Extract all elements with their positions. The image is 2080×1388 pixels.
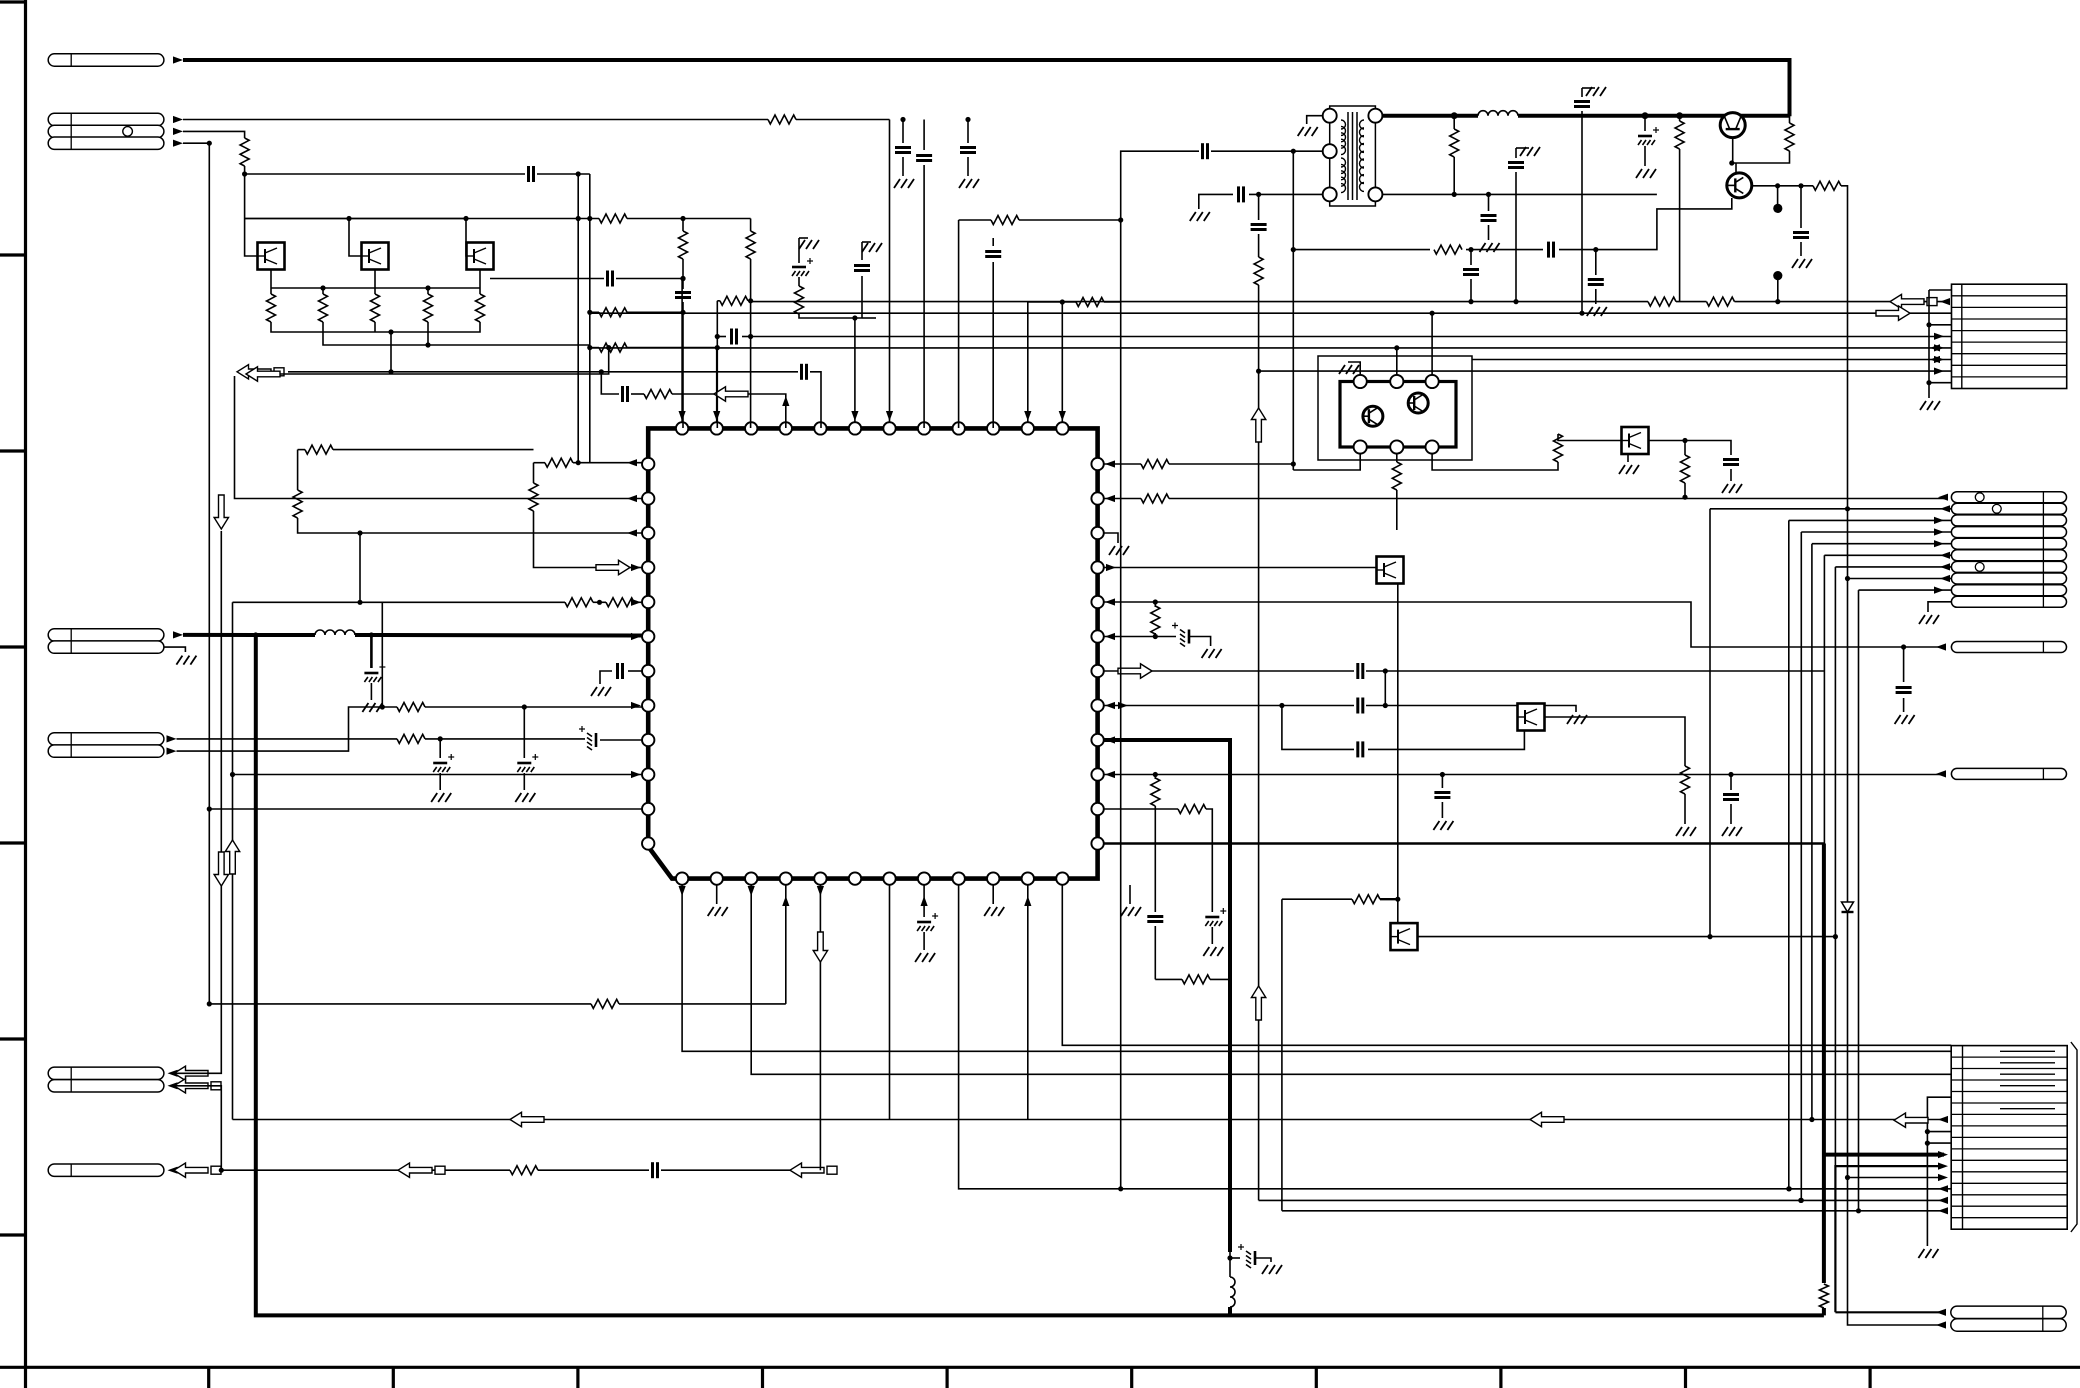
capacitor C23 <box>1356 698 1359 714</box>
resistor R20 <box>397 703 425 712</box>
arrow J4A <box>167 735 177 742</box>
arrow from IC right pin4 <box>1106 564 1116 571</box>
frame bottom tick 6 <box>1130 1367 1133 1388</box>
ground G31 <box>1586 87 1592 96</box>
capacitor C32 <box>1251 223 1267 226</box>
wire pinr2 netb <box>1169 498 1946 500</box>
junction bank mid 4 <box>425 285 430 290</box>
IC U1 bottom pin 8 <box>918 872 930 884</box>
junction net1170 a <box>219 1168 224 1173</box>
wire net449 <box>298 449 305 451</box>
arrow J3A <box>173 631 183 638</box>
junction J4A <box>438 736 443 741</box>
wire v1858 <box>1858 590 1860 1211</box>
resistor R34 <box>1434 245 1462 254</box>
junction 1731 <box>1728 772 1733 777</box>
wire net371b <box>810 372 821 428</box>
wire ecap stub 371 <box>370 635 373 668</box>
connector CN6 body <box>1951 1046 2067 1230</box>
junction bank bus 2 <box>346 216 351 221</box>
arrow row7 a <box>1930 356 1940 363</box>
frame left tick 6 <box>0 1233 25 1236</box>
IC U1 right pin 6 <box>1091 630 1103 642</box>
wire v589 <box>589 174 591 463</box>
arrow CN6 row12 <box>1938 1174 1948 1181</box>
capacitor C24 <box>1356 741 1359 757</box>
wire cap stub 1903b <box>1903 698 1905 712</box>
wire gnd14 stub <box>1129 885 1131 904</box>
capacitor C7 <box>800 364 803 380</box>
wire ecap 1645 <box>1644 118 1646 131</box>
wire net347 left <box>590 347 599 349</box>
resistor R21 <box>591 999 619 1008</box>
junction CN6 bus 1143 <box>1925 1141 1930 1146</box>
wire net347 leftb <box>627 347 717 349</box>
capacitor C30 <box>1201 143 1204 159</box>
wire stub862d <box>861 276 863 318</box>
wire cap stub 1442b <box>1441 802 1443 818</box>
wire botpin10 stub <box>992 885 994 904</box>
arrow row7 b <box>1934 356 1944 363</box>
thick vertical 1823 <box>1822 844 1826 1284</box>
wire T1 t5 net <box>1382 193 1657 195</box>
thick wire CN6 row10 <box>1824 1153 1944 1157</box>
inductor L1 <box>315 630 355 635</box>
IC U1 left pin 3 <box>642 527 654 539</box>
wire stub1516c <box>1515 172 1517 302</box>
open arrow into pin4 <box>596 560 630 574</box>
resistor R25 <box>1352 895 1380 904</box>
junction pinr1 <box>1291 461 1296 466</box>
arrow into IC right pin10 <box>1105 771 1115 778</box>
wire q8 cap b <box>1730 469 1732 481</box>
arrow row5 <box>1934 333 1944 340</box>
ground G22 <box>1203 947 1209 956</box>
wire r26 b <box>1154 633 1156 637</box>
wire stub862 <box>861 242 863 260</box>
resistor R37 <box>1648 297 1676 306</box>
wire net1003 <box>209 1003 591 1005</box>
capacitor C11 <box>854 264 870 267</box>
wire q6 out <box>1418 936 1836 938</box>
junction q1 node <box>1729 160 1734 165</box>
wire J4B net <box>177 707 398 751</box>
ground G36 <box>1567 715 1573 724</box>
wire cn2 busv <box>1928 290 1930 398</box>
frame bottom tick 4 <box>761 1367 764 1388</box>
wire v1258 <box>1258 194 1260 220</box>
wire botpin4 down <box>785 885 787 1004</box>
IC U1 bottom pin 3 <box>745 872 757 884</box>
open arrow busB <box>1876 306 1910 320</box>
wire R2 to bank <box>244 166 246 219</box>
capacitor C5 <box>675 291 691 294</box>
open arrow net371 <box>237 365 271 379</box>
connector J6 pill <box>48 1164 164 1176</box>
junction 1230 <box>1227 1255 1232 1260</box>
wire q2v tail <box>1848 1178 1945 1326</box>
junction net371 a <box>599 369 604 374</box>
junction pin3 net <box>357 530 362 535</box>
IC U1 top pin 8 <box>918 422 930 434</box>
junction q2v row8 <box>1845 576 1850 581</box>
IC U1 top pin 10 <box>987 422 999 434</box>
junction stub1582 <box>1579 311 1584 316</box>
connector CN5 pill <box>1951 768 2066 779</box>
wire v1710 <box>1709 509 1711 937</box>
IC U1 right pin 7 <box>1091 665 1103 677</box>
capacitor C41 <box>1723 458 1739 461</box>
ground G7 <box>176 656 182 665</box>
IC U1 top pin 3 <box>745 422 757 434</box>
wire cap row3 <box>1282 706 1354 750</box>
resistor R bank 2 <box>319 294 328 322</box>
wire pinr2 net <box>1104 498 1141 500</box>
wire net249 <box>1293 249 1430 251</box>
ground G33 <box>1920 401 1926 410</box>
arrow into IC bottom pin4 <box>782 896 789 906</box>
junction net347 a <box>587 345 592 350</box>
ground G11 <box>708 907 714 916</box>
resistor R35 <box>1785 123 1794 151</box>
arrow into IC left pin5 <box>631 599 641 606</box>
arrow into IC top pin x682 <box>679 411 686 421</box>
ground G9 <box>431 793 437 802</box>
wire q2 out b <box>1841 186 1944 1178</box>
open arrow to J6 <box>174 1163 208 1177</box>
wire net1003b <box>619 1003 786 1005</box>
CN3 index circle 1 <box>1975 493 1984 502</box>
arrow into CN7A <box>1936 1309 1946 1316</box>
junction net374 <box>606 345 611 350</box>
connector J5 pill B <box>48 1080 164 1092</box>
frame bottom tick 7 <box>1315 1367 1318 1388</box>
IC U1 right pin 5 <box>1091 596 1103 608</box>
junction T1 t3 <box>1256 192 1261 197</box>
wire bigdot2 stem <box>1777 280 1779 302</box>
wire net1170c <box>661 1169 820 1171</box>
transistor Q6 <box>1391 923 1418 950</box>
wire net220r <box>959 219 991 221</box>
IC U1 bottom pin 6 <box>849 872 861 884</box>
transformer T1 left windings <box>1341 120 1346 129</box>
resistor R23 <box>1141 460 1169 469</box>
arrow into J5A <box>168 1070 178 1077</box>
resistor R4 <box>679 231 688 259</box>
module pin d <box>1354 440 1367 453</box>
resistor R27 <box>1681 766 1690 794</box>
wire q5 down <box>1397 584 1399 924</box>
wire botpin12 down <box>1062 885 1951 1045</box>
junction net174 left <box>242 171 247 176</box>
arrow into IC top pin x716 <box>713 411 720 421</box>
wire botpin5 down <box>819 885 821 1170</box>
IC U1 left pin 8 <box>642 699 654 711</box>
wire pin8 up <box>923 165 925 428</box>
wire v533 <box>533 463 535 483</box>
wire CN6 row15 <box>1282 1210 1944 1212</box>
wire v683 seg3 <box>682 302 684 428</box>
connector J5 pill A <box>48 1067 164 1079</box>
wire v1789 long <box>1789 520 1951 1188</box>
open arrow botpin5 <box>813 932 827 962</box>
IC U1 left pin 2 <box>642 492 654 504</box>
thick vertical left rail <box>256 635 1824 1315</box>
electrolytic C17 <box>517 762 531 765</box>
wire cap stub a2 <box>902 157 904 176</box>
wire v382 <box>381 602 383 707</box>
transistor Q8 <box>1622 427 1649 454</box>
junction q6 in <box>1395 897 1400 902</box>
connector CN3 pill 1 <box>1951 492 2066 503</box>
junction pinr10 <box>1153 772 1158 777</box>
wire ecap stub 524b <box>523 773 525 790</box>
arrow from IC bottom pin5 <box>817 886 824 896</box>
capacitor C1 <box>895 146 911 149</box>
resistor R29 <box>1178 805 1206 814</box>
resistor R31 <box>1254 257 1263 285</box>
wire bank tap 1 <box>270 288 272 294</box>
junction pin10l <box>230 772 235 777</box>
transformer T1 right windings <box>1360 120 1365 129</box>
junction net220 c <box>680 216 685 221</box>
wire J2A drop to IC pin <box>889 120 891 423</box>
wire stub1516b <box>1516 147 1529 149</box>
frame bottom tick 1 <box>207 1367 210 1388</box>
arrow into J5B <box>168 1082 178 1089</box>
wire stub1582 <box>1581 88 1583 97</box>
frame bottom tick 5 <box>945 1367 948 1388</box>
wire net394 <box>601 372 619 394</box>
capacitor C27 <box>1434 791 1450 794</box>
wire CN3 row3 <box>1789 519 1952 521</box>
open arrow net394 <box>714 387 748 401</box>
arrow busC a <box>1930 344 1940 351</box>
wire net220r b <box>1019 219 1121 221</box>
capacitor C22 <box>1356 663 1359 679</box>
wire cap stub 1903 <box>1903 647 1905 682</box>
wire CN3 row5 <box>1812 543 1952 545</box>
frame bottom tick 10 <box>1868 1367 1871 1388</box>
wire cap row3 b <box>1368 723 1524 749</box>
wire J4A net b <box>425 738 585 740</box>
arrow J2B <box>173 128 183 135</box>
ground G29 <box>1792 259 1798 268</box>
wire pinr1 netb <box>1169 463 1293 465</box>
junction thick 371 <box>369 632 374 637</box>
capacitor C37 <box>1463 268 1479 271</box>
ground G20 <box>1262 1265 1268 1274</box>
wire net371 <box>288 371 798 373</box>
junction c6 b <box>748 334 753 339</box>
wire v1812 long <box>1811 544 1813 1120</box>
IC U1 bottom pin 2 <box>711 872 723 884</box>
connector CN6 key dashes <box>2000 1050 2055 1052</box>
wire CN3 row2 <box>1710 508 1951 510</box>
wire T1 t2 net <box>1293 150 1322 152</box>
wire busA b <box>1676 301 1707 303</box>
resistor R1 <box>768 115 796 124</box>
resistor R28 <box>1151 778 1160 806</box>
ground G37 <box>1619 465 1625 474</box>
wire r26 a <box>1154 602 1156 607</box>
junction pinr10b <box>1440 772 1445 777</box>
junction toppin1 <box>680 276 685 281</box>
transistor Q11 <box>362 243 389 270</box>
resistor R8 <box>720 296 748 305</box>
diode D1 <box>1842 902 1854 912</box>
open arrow to J5B <box>174 1079 208 1093</box>
junction cn2 bus 324 <box>1926 322 1931 327</box>
junction row14 <box>1798 1198 1803 1203</box>
wire cn2 row 324 <box>1929 324 1952 326</box>
wire q6 in res <box>1282 898 1352 900</box>
IC U1 top pin 9 <box>953 422 965 434</box>
wire cap1450b <box>1470 279 1472 302</box>
arrow into IC right pin9 <box>1105 736 1115 743</box>
wire botpin11 down <box>1027 885 1029 1120</box>
open arrow v1258 a <box>1251 408 1265 442</box>
resistor R bank 1 <box>267 294 276 322</box>
wire J2A net <box>183 119 768 121</box>
ground G35 <box>1918 1249 1924 1258</box>
electrolytic C34 <box>1638 135 1652 138</box>
arrow into IC left pin4 <box>631 564 641 571</box>
wire bus1 drop <box>390 332 392 372</box>
resistor R19 <box>397 734 425 743</box>
junction net249 d <box>1593 247 1598 252</box>
junction v1789 row13 <box>1786 1186 1791 1191</box>
ground G19 <box>1722 827 1728 836</box>
wire pinr4 net <box>1104 567 1377 569</box>
arrow CN3 row2 <box>1940 505 1950 512</box>
junction T1 out b <box>1642 112 1649 119</box>
resistor R38 <box>1707 297 1735 306</box>
wire pinr7 netb <box>1366 670 1824 672</box>
wire stub1595 <box>1595 250 1597 275</box>
open arrow v221 b <box>214 852 228 886</box>
open arrow net1119 a <box>510 1112 544 1126</box>
frame left tick 2 <box>0 449 25 452</box>
resistor R5 <box>746 231 755 259</box>
arrow into IC right pin6 <box>1105 633 1115 640</box>
arrow pinr8 b <box>1118 702 1128 709</box>
resistor R41 <box>1819 1284 1828 1308</box>
wire v717 <box>716 301 718 428</box>
wire pin5 netc <box>634 601 642 603</box>
wire cap1801 <box>1800 186 1802 228</box>
IC U1 right pin 1 <box>1091 458 1103 470</box>
junction stub1516 <box>1513 299 1518 304</box>
arrow out of IC left pin3 <box>627 529 637 536</box>
wire pin9l <box>600 739 642 741</box>
wire pin10l <box>233 774 643 776</box>
wire cap1450 <box>1470 250 1472 265</box>
wire v1801 long <box>1800 532 1802 1200</box>
resistor R18 <box>606 598 634 607</box>
wire T1 t2 cap b <box>1121 151 1199 1189</box>
junction q8 out <box>1682 438 1687 443</box>
CN3 index circle 3 <box>1975 563 1984 572</box>
ground G32 <box>1339 365 1345 374</box>
wire pin6 up <box>854 318 856 422</box>
wire v1824 upper <box>1823 555 1825 843</box>
junction net220 a <box>576 216 581 221</box>
capacitor C8 <box>621 386 624 402</box>
resistor R33 <box>1675 121 1684 149</box>
wire v1293 <box>1292 151 1294 470</box>
IC U1 left pin 7 <box>642 665 654 677</box>
IC U1 bottom pin 1 <box>676 872 688 884</box>
capacitor C3 <box>527 166 530 182</box>
wire pinr11 net c <box>1211 927 1213 944</box>
ground G18 <box>1676 827 1682 836</box>
frame bottom tick 3 <box>576 1367 579 1388</box>
arrow CN3 row8 <box>1940 575 1950 582</box>
IC U1 bottom pin 4 <box>780 872 792 884</box>
IC U1 right pin 2 <box>1091 492 1103 504</box>
arrow into pill774 <box>1936 770 1946 777</box>
arrow into IC bottom pin11 <box>1024 896 1031 906</box>
wire stub799 <box>798 238 800 263</box>
junction net249 a <box>1291 247 1296 252</box>
wire v232 <box>232 602 234 1119</box>
junction net278 <box>680 276 685 281</box>
ground G10 <box>515 793 521 802</box>
frame bottom bar <box>0 1366 2080 1369</box>
capacitor C2 <box>960 146 976 149</box>
frame left tick 5 <box>0 1037 25 1040</box>
wire stub862c <box>862 317 876 319</box>
IC U1 top pin 2 <box>711 422 723 434</box>
wire v578 <box>577 174 579 463</box>
transformer T1 body <box>1330 106 1376 206</box>
open arrow v1258 b <box>1251 986 1265 1020</box>
wire net220 <box>245 218 599 220</box>
arrow row8 <box>1934 368 1944 375</box>
wire module e down <box>1396 453 1398 462</box>
wire CN3 row4 <box>1801 531 1951 533</box>
connector CN3 pill 7 <box>1951 561 2066 572</box>
wire v683 seg2 <box>682 259 684 289</box>
junction q2v row12 <box>1845 1175 1850 1180</box>
wire module b up <box>1396 348 1398 375</box>
wire r32 b <box>1453 157 1455 194</box>
thick wire pinr9 <box>1104 740 1230 1252</box>
wire r35 top <box>1789 113 1791 123</box>
wire net374 <box>246 348 609 374</box>
wire bank low bus2b <box>427 322 429 345</box>
connector CN6 divider <box>1962 1046 1964 1230</box>
resistor R17 <box>565 598 593 607</box>
wire net174 <box>245 173 525 175</box>
connector CN3 pill 10 <box>1951 596 2066 607</box>
resistor R39 <box>1392 462 1401 490</box>
electrolytic C15 <box>433 762 447 765</box>
wire c6 leads2 <box>742 336 751 338</box>
resistor R10 <box>991 216 1019 225</box>
connector CN6 mate bevel <box>2071 1042 2077 1232</box>
electrolytic C13 <box>364 672 378 675</box>
IC U1 bottom pin 5 <box>814 872 826 884</box>
arrow CN6 row11 <box>1938 1163 1948 1170</box>
wire r28 a <box>1154 775 1156 780</box>
connector J3 pill B <box>48 641 164 653</box>
wire cap stub 1731 <box>1730 775 1732 791</box>
junction J2C top <box>207 141 212 146</box>
wire net1170b <box>538 1169 649 1171</box>
wire cap stub 1488b <box>1488 225 1490 240</box>
